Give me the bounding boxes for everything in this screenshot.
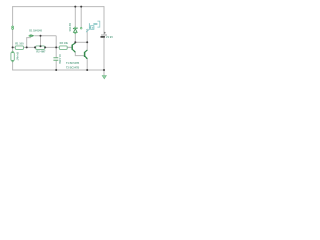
wire collector bus	[75, 41, 87, 43]
svg-text:D2 3V3: D2 3V3	[68, 23, 71, 32]
wire bottom rail	[12, 69, 104, 71]
junction R2 top	[40, 45, 42, 47]
transistor Q1 (T1)	[66, 43, 79, 65]
wire left rail upper segment	[12, 6, 14, 26]
wire Q1 base pin	[67, 46, 72, 48]
wire Q1 collector stub	[74, 41, 76, 44]
wire D1 anode corner to mid rail	[27, 38, 31, 48]
wire right rail upper (to battery)	[103, 6, 105, 34]
wire Q2 emitter down to bottom rail	[86, 59, 88, 70]
junction D1 anode branch	[26, 46, 28, 48]
junction left rail / mid rail	[12, 46, 14, 48]
junction R2 right	[44, 46, 46, 48]
probe pin upper	[12, 26, 14, 28]
wire junction A down to R2 top	[40, 36, 42, 47]
resistor R4	[11, 52, 19, 61]
junction Q2 emitter / bottom rail	[86, 69, 88, 71]
junction collector bus right	[86, 41, 88, 43]
junction D1 cathode	[40, 35, 42, 37]
wire zener bottom to collector bus	[74, 33, 76, 42]
wire Q2 collector vertical	[86, 42, 88, 50]
svg-text:D1 1N4148: D1 1N4148	[29, 30, 42, 33]
transistor Q2 (T2)	[66, 50, 88, 70]
svg-text:T1 BC547B: T1 BC547B	[66, 62, 79, 65]
wire mid rail down to C1 top	[55, 47, 57, 57]
wire ground stem	[103, 70, 105, 76]
pin end of stub x81	[80, 27, 82, 29]
svg-text:R3 10k: R3 10k	[60, 41, 69, 45]
svg-text:R2 4M7: R2 4M7	[36, 49, 46, 53]
junction node B / mid rail	[55, 46, 57, 48]
svg-text:R1 100: R1 100	[15, 41, 24, 45]
svg-text:C1 100n: C1 100n	[58, 54, 61, 64]
resistor R3	[59, 41, 68, 49]
junction top rail / stub	[80, 6, 82, 8]
wire mid rail	[13, 46, 72, 48]
svg-text:T2 BC547B: T2 BC547B	[66, 66, 79, 69]
junction R2 left	[34, 46, 36, 48]
zener diode D2	[68, 23, 77, 32]
buzzer LS1	[86, 21, 100, 32]
svg-text:R4 4k7: R4 4k7	[16, 52, 19, 61]
resistor R2	[36, 46, 46, 54]
wire stub from top rail x81	[80, 7, 82, 28]
wire D1 cathode to junction A	[35, 35, 57, 37]
resistor R1	[15, 41, 24, 49]
wire zener top feed	[74, 7, 76, 28]
junction top rail / zener	[74, 6, 76, 8]
capacitor C1	[53, 54, 61, 64]
wire left rail lower segment	[12, 29, 14, 70]
R4 bottom pin	[12, 61, 13, 62]
zener bottom pin	[75, 32, 76, 33]
probe pin lower	[12, 28, 14, 30]
junction C1 / bottom rail	[55, 69, 57, 71]
wire Q1 emitter to Q2 base	[75, 52, 84, 56]
wire node B down to mid rail	[55, 36, 57, 48]
svg-text:V1 9V: V1 9V	[106, 35, 113, 39]
wire C1 bottom to bottom rail	[55, 61, 57, 70]
battery V1	[101, 32, 114, 39]
wire buzzer pin down	[86, 29, 88, 42]
ground	[102, 76, 106, 79]
R4 top pin	[12, 51, 13, 52]
junction bottom rail / ground	[103, 69, 105, 71]
wire right rail lower (battery to bottom)	[103, 38, 105, 70]
diode D1	[29, 30, 42, 38]
wire top rail	[13, 6, 104, 8]
D1 anode pin	[29, 35, 30, 36]
zener top pin	[75, 27, 76, 28]
junction collector bus left	[74, 41, 76, 43]
